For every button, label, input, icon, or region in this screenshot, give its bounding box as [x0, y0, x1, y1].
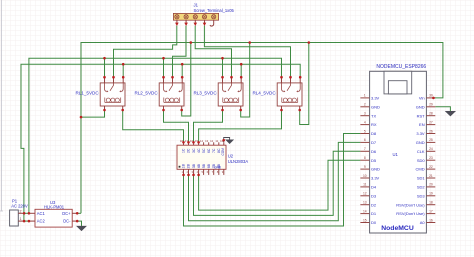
svg-text:GND: GND [416, 140, 425, 145]
relay RL4_5VDC [252, 77, 302, 110]
svg-text:NODEMCU_ESP8266: NODEMCU_ESP8266 [376, 64, 426, 70]
U1 pin 11 D4 [360, 183, 376, 190]
wire 5V to RL4 coil [300, 43, 309, 125]
node RL4 contact [289, 76, 292, 79]
microcontroller U1 NODEMCU_ESP8266 [370, 64, 427, 233]
U1 pin 14 D1 [360, 209, 376, 216]
node RL4 contact [299, 76, 302, 79]
svg-text:27: 27 [429, 120, 433, 124]
node RL4 coil [280, 109, 283, 112]
svg-text:5C: 5C [202, 148, 206, 153]
U1 pin 18 RSV(Don't Use) [396, 201, 435, 208]
svg-text:12: 12 [363, 192, 367, 196]
wire AC2 bus: HLK AC2 up, across to relay contacts [21, 64, 300, 221]
svg-text:AC2: AC2 [37, 219, 46, 224]
wire AC2 tap to RL2 [181, 64, 183, 77]
J1 pin 5 unconnected [210, 20, 214, 26]
svg-text:GND: GND [214, 166, 222, 170]
svg-text:23: 23 [429, 156, 433, 160]
J1 pin 1 [175, 20, 179, 26]
node ULN COM [222, 139, 225, 142]
U1 pin 19 SD3 [417, 192, 435, 199]
svg-text:6: 6 [364, 138, 366, 142]
J1 pin 3 [194, 20, 198, 26]
svg-text:RL2_5VDC: RL2_5VDC [134, 90, 158, 95]
node AC1 in [28, 212, 31, 215]
svg-text:11: 11 [363, 183, 367, 187]
svg-text:5B: 5B [202, 163, 206, 168]
node RL1 coil [103, 109, 106, 112]
node P1.2 [23, 212, 26, 215]
svg-text:COM: COM [221, 148, 225, 156]
svg-text:Vin: Vin [419, 96, 425, 101]
node RL3 contact [230, 76, 233, 79]
svg-text:5: 5 [364, 129, 366, 133]
node ULN 2B [187, 174, 190, 177]
U1 pin 22 CMD [415, 165, 435, 172]
svg-text:U2: U2 [228, 154, 234, 159]
wire HLK DC- to ground [77, 221, 81, 226]
node RL3 coil [239, 109, 242, 112]
wire AC2 tap to RL1 [122, 64, 124, 77]
svg-text:3.3V: 3.3V [371, 176, 380, 181]
svg-text:16: 16 [429, 218, 433, 222]
svg-text:AC1: AC1 [37, 211, 46, 216]
svg-text:GND: GND [371, 104, 380, 109]
wire AC1 bus: HLK AC1 up, across to relay NO contacts [29, 58, 282, 213]
node RL2 contact [171, 76, 174, 79]
node RL2 coil [162, 109, 165, 112]
node RL3 contact [240, 76, 243, 79]
svg-text:RL4_5VDC: RL4_5VDC [252, 90, 276, 95]
svg-text:11: 11 [215, 139, 218, 143]
U1 pin 9 GND [360, 165, 380, 172]
svg-text:EN: EN [419, 122, 425, 127]
svg-text:SD1: SD1 [417, 176, 426, 181]
relay RL1_5VDC [75, 77, 125, 110]
svg-text:3C: 3C [192, 148, 196, 153]
svg-text:D5: D5 [371, 158, 377, 163]
svg-text:26: 26 [429, 129, 433, 133]
svg-text:18: 18 [429, 201, 433, 205]
node RL2 contact [181, 76, 184, 79]
node RL1 contact [112, 76, 115, 79]
node AC1-RL3 [221, 57, 224, 60]
J1 pin 2 [184, 20, 188, 26]
svg-text:Screw_Terminal_1x05: Screw_Terminal_1x05 [194, 8, 235, 13]
svg-text:22: 22 [429, 165, 433, 169]
wire RL2 coil to ULN 2C [164, 110, 189, 142]
wire P1.2 to HLK AC1 [24, 212, 29, 214]
node ULN 1C [182, 141, 185, 144]
svg-text:CMD: CMD [415, 167, 424, 172]
svg-text:29: 29 [429, 103, 433, 107]
svg-text:7: 7 [364, 147, 366, 151]
node RL1 coil [121, 109, 124, 112]
svg-text:14: 14 [200, 139, 204, 143]
wire AC2 tap to RL3 [240, 64, 242, 77]
node RL2 coil [180, 109, 183, 112]
svg-text:2: 2 [20, 209, 22, 213]
svg-text:HLK-PM01: HLK-PM01 [44, 205, 65, 210]
svg-text:ULN2803A: ULN2803A [228, 159, 249, 164]
svg-text:3.3V: 3.3V [416, 131, 425, 136]
svg-text:28: 28 [429, 112, 433, 116]
wire ULN 4B to NodeMCU D5 [199, 160, 361, 210]
node AC2-RL1 [122, 63, 125, 66]
svg-text:1C: 1C [182, 148, 186, 153]
wire J1 pin1 to RL1 common [114, 26, 177, 78]
svg-text:RSV(Don't Use): RSV(Don't Use) [396, 211, 425, 216]
node RL4 coil [298, 109, 301, 112]
IC U2 ULN2803A darlington driver [177, 139, 248, 175]
svg-text:D2: D2 [371, 202, 377, 207]
svg-text:7C: 7C [212, 148, 216, 153]
U1 pin 13 D2 [360, 201, 376, 208]
U1 pin 12 D3 [360, 192, 376, 199]
svg-text:2B: 2B [187, 163, 191, 168]
svg-text:DC+: DC+ [62, 211, 71, 216]
svg-text:17: 17 [429, 209, 433, 213]
svg-text:4B: 4B [197, 163, 201, 168]
wire 5V to RL1 coil [81, 110, 105, 117]
svg-text:14: 14 [363, 209, 367, 213]
svg-text:1: 1 [20, 217, 22, 221]
relay RL2_5VDC [134, 77, 184, 110]
svg-text:12: 12 [210, 139, 214, 143]
U1 pin 21 SD1 [417, 174, 435, 181]
node RL1 contact [122, 76, 125, 79]
svg-text:D7: D7 [371, 140, 377, 145]
svg-text:RX: RX [371, 122, 377, 127]
node 5V-RL1 coil [80, 116, 83, 119]
wire HLK DC+ stub link [77, 212, 81, 214]
U1 pin 8 D5 [360, 156, 376, 163]
svg-text:D3: D3 [371, 193, 377, 198]
svg-text:A0: A0 [420, 220, 426, 225]
svg-text:30: 30 [429, 94, 433, 98]
U1 pin 24 CLK [417, 147, 435, 154]
wire 5V bus from HLK DC+ up across to NodeMCU Vin [81, 43, 443, 214]
node RL3 contact [221, 76, 224, 79]
svg-text:2C: 2C [187, 148, 191, 153]
svg-text:SD2: SD2 [417, 185, 426, 190]
svg-text:RST: RST [417, 113, 426, 118]
svg-text:4C: 4C [197, 148, 201, 153]
node RL3 coil [221, 109, 224, 112]
node 5V-RL3 riser [248, 41, 251, 44]
node AC1-RL1 [103, 57, 106, 60]
svg-text:RSV(Don't Use): RSV(Don't Use) [396, 202, 425, 207]
svg-text:D6: D6 [371, 149, 377, 154]
U1 pin 3 TX [360, 112, 376, 119]
node ULN 4B [197, 174, 200, 177]
node Vin [432, 97, 435, 100]
wire ULN 2B to NodeMCU D7 [189, 142, 361, 220]
node ULN 1B [182, 174, 185, 177]
U1 pin 2 GND [360, 103, 380, 110]
node ULN 4C [197, 141, 200, 144]
ground near HLK DC- [77, 226, 86, 231]
node P1.1 [23, 220, 26, 223]
ground near NodeMCU GND pin 29 [446, 111, 456, 116]
svg-text:8: 8 [364, 156, 366, 160]
wire AC1 tap to RL1 [104, 58, 106, 77]
svg-text:10: 10 [363, 174, 367, 178]
svg-text:J1: J1 [194, 3, 199, 8]
U1 pin 1 3.3V [360, 94, 379, 101]
svg-text:RL3_5VDC: RL3_5VDC [193, 90, 217, 95]
U1 pin 23 SD0 [417, 156, 435, 163]
svg-text:RL1_5VDC: RL1_5VDC [75, 90, 99, 95]
U1 pin 16 A0 [420, 218, 436, 225]
ground near ULN2803 COM [226, 140, 234, 144]
node AC2-RL2 [181, 63, 184, 66]
svg-text:6B: 6B [207, 163, 211, 168]
svg-text:2: 2 [364, 103, 366, 107]
node DC- [76, 220, 79, 223]
U1 pin 27 EN [419, 120, 435, 127]
svg-text:3B: 3B [192, 163, 196, 168]
U1 pin 5 D8 [360, 129, 376, 136]
wire RL3 coil to ULN 3C [194, 110, 223, 142]
svg-text:DC-: DC- [63, 219, 71, 224]
node RL4 contact [280, 76, 283, 79]
svg-text:CLK: CLK [417, 149, 425, 154]
U1 pin 30 Vin [419, 94, 435, 101]
node RL2 contact [162, 76, 165, 79]
svg-text:24: 24 [429, 147, 433, 151]
node 5V-ULN riser [190, 41, 193, 44]
svg-text:D4: D4 [371, 185, 377, 190]
U1 pin 7 D6 [360, 147, 376, 154]
svg-text:GND: GND [371, 167, 380, 172]
svg-text:NodeMCU: NodeMCU [381, 225, 414, 232]
svg-text:9: 9 [364, 165, 366, 169]
U1 pin 10 3.3V [360, 174, 379, 181]
svg-text:21: 21 [429, 174, 433, 178]
svg-text:AC 220V: AC 220V [11, 203, 28, 208]
node AC2-RL3 [240, 63, 243, 66]
svg-text:13: 13 [363, 201, 367, 205]
svg-text:D1: D1 [371, 211, 377, 216]
svg-text:3: 3 [364, 112, 366, 116]
svg-text:D8: D8 [371, 131, 377, 136]
wire NodeMCU GND29 to ground [435, 107, 450, 112]
node AC2 in [28, 220, 31, 223]
J1 pin 4 [203, 20, 207, 26]
node AC1-RL2 [162, 57, 165, 60]
svg-text:TX: TX [371, 113, 376, 118]
wire P1.1 to HLK AC2 [24, 220, 29, 222]
U1 pin 29 GND [416, 103, 436, 110]
connector J1 Screw_Terminal_1x05 [173, 3, 234, 21]
svg-text:13: 13 [205, 139, 209, 143]
relay RL3_5VDC [193, 77, 243, 110]
svg-text:1: 1 [364, 94, 366, 98]
wire J1 pin4 to RL4 common [204, 26, 290, 78]
wire ULN COM to ground [224, 138, 230, 143]
U1 pin 17 RSV(Don't Use) [396, 209, 435, 216]
wire RL4 coil to ULN 4C [199, 110, 282, 142]
node ULN 2C [187, 141, 190, 144]
svg-text:4: 4 [364, 120, 366, 124]
svg-text:20: 20 [429, 183, 433, 187]
wire 5V to RL2 coil [182, 43, 191, 117]
wire ULN 1B to NodeMCU D8 [184, 134, 361, 227]
svg-text:19: 19 [429, 192, 433, 196]
svg-text:GND: GND [416, 104, 425, 109]
svg-text:SD3: SD3 [417, 193, 426, 198]
svg-text:1B: 1B [182, 163, 186, 168]
U1 pin 20 SD2 [417, 183, 435, 190]
svg-text:SD0: SD0 [417, 158, 426, 163]
svg-text:6C: 6C [207, 148, 211, 153]
svg-text:15: 15 [363, 218, 367, 222]
node ULN 3C [192, 141, 195, 144]
power module U3 HLK-PM01 [30, 200, 77, 227]
wire 5V to RL3 coil [241, 43, 250, 118]
node RL1 contact [103, 76, 106, 79]
U1 pin 28 RST [417, 112, 436, 119]
U1 pin 25 GND [416, 138, 436, 145]
U1 pin 4 RX [360, 120, 376, 127]
wire AC1 tap to RL2 [163, 58, 165, 77]
node ULN 3B [192, 174, 195, 177]
svg-text:3.3V: 3.3V [371, 96, 380, 101]
wire RL1 coil to ULN 1C [123, 110, 184, 142]
svg-text:D0: D0 [371, 220, 377, 225]
node DC+ [76, 212, 79, 215]
U1 pin 15 D0 [360, 218, 376, 225]
node 5V-RL4 riser [308, 41, 311, 44]
wire AC1 tap to RL3 [222, 58, 224, 77]
svg-text:25: 25 [429, 138, 433, 142]
connector P1 AC 220V [10, 199, 28, 226]
svg-text:U1: U1 [393, 152, 399, 157]
wire J1 pin3 to RL3 common [195, 26, 231, 78]
U1 pin 26 3.3V [416, 129, 435, 136]
wire J1 pin2 to RL2 common [173, 26, 187, 78]
wire ULN 3B to NodeMCU D6 [194, 151, 361, 215]
U1 pin 6 D7 [360, 138, 376, 145]
